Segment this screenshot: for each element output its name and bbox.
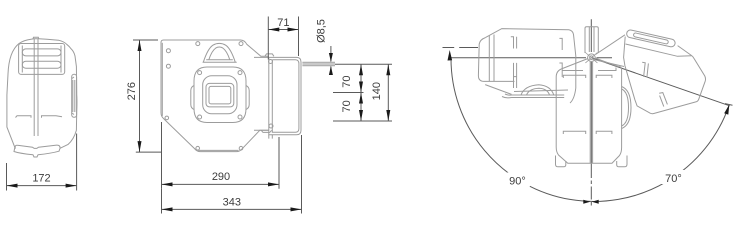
center unit seam [590, 62, 592, 163]
70 degree axis line [591, 58, 729, 106]
dimension 343 extension lines [162, 135, 302, 214]
arc left arrowhead [448, 50, 453, 61]
center unit slot row 1 [563, 75, 612, 78]
side view bottom band [15, 145, 60, 148]
latch inner lines [72, 77, 75, 115]
70 degree stop tick [725, 104, 733, 106]
diameter 8,5 arrows [329, 53, 333, 75]
horizontal pivot axis line [449, 57, 612, 59]
left unit body [478, 29, 575, 103]
svg-text:140: 140 [371, 82, 383, 100]
dimension 290 arrows [162, 182, 280, 186]
dimension 276 arrows [138, 40, 142, 152]
center unit body [556, 58, 621, 163]
hose outlet tube [302, 62, 335, 65]
plate screws [165, 42, 243, 150]
front plate outline [161, 40, 269, 152]
left unit foot plate [502, 94, 564, 98]
right side extension lines (tube level, mid, bottom) [333, 64, 392, 121]
left unit slots [511, 37, 517, 88]
dimension 172 arrows [7, 184, 77, 188]
dimension 172 extension lines [7, 134, 77, 191]
dimension 71 line [268, 29, 298, 31]
label 90 degrees [505, 173, 530, 187]
arc right arrowhead [724, 105, 729, 115]
pivot circles [585, 53, 597, 63]
svg-text:Ø8,5: Ø8,5 [315, 19, 327, 43]
side view right latch strip [72, 74, 77, 117]
zero reference arrows at arc bottom [583, 200, 598, 204]
right unit shoulder lines [594, 35, 626, 67]
svg-text:71: 71 [277, 17, 289, 29]
dimension 140 arrows [386, 64, 390, 121]
hub boss side tabs [191, 86, 249, 110]
right unit capsule [626, 29, 676, 47]
hub boss outer [194, 67, 246, 123]
dimension 276 line [139, 40, 141, 152]
vertical centerline [590, 19, 592, 165]
side view vent dash left [16, 116, 32, 118]
hub boss inner ring [203, 76, 237, 114]
right unit slots [642, 62, 667, 106]
carry handle [203, 43, 237, 62]
hub window [206, 83, 234, 107]
side view center seam [34, 39, 38, 136]
swivel pin column [585, 27, 598, 53]
dimension 343 arrows [162, 207, 302, 211]
left unit bulge [521, 85, 554, 95]
right unit body [624, 37, 706, 114]
bracket inner verticals [22, 46, 61, 73]
90 degree stop tick [443, 47, 479, 49]
diameter 8,5 leader [330, 46, 332, 75]
dimension 71 arrows [268, 28, 298, 32]
bracket slat 2 [22, 61, 61, 68]
boss screws [198, 71, 242, 119]
svg-text:343: 343 [223, 197, 241, 209]
dimension 140 line [387, 64, 389, 121]
center unit feet [556, 156, 628, 167]
center unit slot row 2 [563, 131, 612, 134]
dimension 70 top line [360, 64, 362, 121]
dimension 290 line [162, 183, 280, 185]
side view bracket box [19, 44, 65, 75]
svg-text:172: 172 [32, 173, 50, 185]
dimension 172 line [7, 185, 77, 187]
side view top nub [33, 37, 39, 39]
dimension 71 extension lines [268, 17, 298, 60]
svg-text:70: 70 [341, 75, 353, 87]
side view body outline [7, 39, 77, 149]
center unit bulge [622, 87, 631, 129]
swivel bracket [254, 54, 301, 139]
svg-text:276: 276 [126, 82, 138, 100]
svg-text:90°: 90° [509, 176, 526, 188]
arc 90-70 [451, 59, 729, 202]
dimension 70 arrows [359, 64, 363, 121]
svg-text:70°: 70° [665, 173, 682, 185]
label 70 degrees [661, 170, 686, 184]
dimension 276 extension lines [133, 40, 162, 152]
dimension 343 line [162, 208, 302, 210]
svg-text:290: 290 [212, 171, 230, 183]
dimension 290 extension lines [162, 122, 280, 189]
svg-text:70: 70 [341, 100, 353, 112]
side view vent dash right [42, 116, 63, 118]
bracket slat 1 [22, 49, 61, 56]
